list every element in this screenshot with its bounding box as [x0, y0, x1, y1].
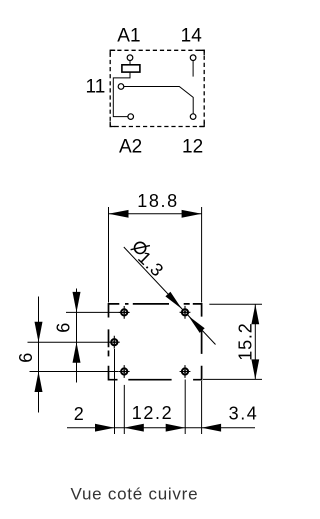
bottom dimension line: [67, 427, 255, 429]
svg-text:6: 6: [54, 322, 74, 333]
mounting hole bottom-right: [180, 365, 191, 378]
dimension 15.2 extension line bottom: [203, 378, 262, 380]
dimension 6 upper extension line (top hole row): [66, 311, 120, 313]
dimension 2 arrow (points right at mid-left column): [95, 424, 115, 432]
leader arrow upper (points at hole): [165, 292, 182, 309]
svg-text:11: 11: [86, 77, 106, 98]
relay footprint dashed outline: [109, 304, 202, 380]
dimension 15.2 extension line top: [209, 303, 262, 305]
mounting hole top-right: [180, 306, 191, 319]
dimension 6 lower arrow up: [35, 372, 43, 393]
wire 11 common contact arm to pin 12 (NC closed): [124, 87, 193, 114]
dimension 18.8 arrow right: [182, 210, 202, 218]
svg-text:18.8: 18.8: [137, 191, 178, 211]
relay K1 internal schematic dashed outline: [110, 50, 204, 126]
dimension 3.4 arrow (points left at right edge): [202, 424, 222, 432]
dimension 15.2 arrow down: [251, 359, 259, 379]
dimension 6 upper arrow down: [73, 292, 81, 313]
dimension 6 lower line: [38, 297, 40, 413]
leader arrow lower (points at hole): [188, 316, 205, 333]
svg-text:1.3: 1.3: [134, 247, 168, 280]
pin A1 terminal circle: [127, 55, 133, 61]
dimension 6 shared extension line (middle hole row): [28, 341, 109, 343]
diameter symbol slash: [131, 246, 150, 250]
mounting hole middle-left: [109, 336, 120, 349]
svg-text:3.4: 3.4: [229, 403, 259, 423]
dimension 6 lower arrow down: [35, 322, 43, 343]
dimension 6 upper line: [76, 289, 78, 383]
bottom dimensions extension line (right hole column): [184, 380, 186, 435]
bottom dimensions extension line (left hole column): [123, 385, 125, 434]
dimension 15.2 line: [254, 304, 256, 379]
relay coil: [122, 65, 140, 72]
dimension 18.8 extension line right: [201, 207, 203, 303]
svg-text:15.2: 15.2: [236, 322, 256, 360]
svg-text:2: 2: [74, 404, 86, 424]
bottom dimensions extension line (right edge): [201, 381, 203, 434]
svg-text:14: 14: [181, 25, 203, 46]
svg-text:12.2: 12.2: [132, 403, 173, 423]
wire A1 to coil: [129, 61, 131, 65]
dimension 6 upper arrow up: [73, 342, 81, 363]
dimension 18.8 arrow left: [109, 210, 129, 218]
svg-text:12: 12: [182, 136, 203, 157]
dimension 18.8 extension line left: [108, 207, 110, 303]
dimension 12.2 arrow left: [124, 424, 144, 432]
mounting hole top-left: [119, 306, 130, 319]
pin 14 terminal circle: [190, 55, 196, 61]
dimension 6 lower extension line (bottom hole row): [30, 371, 119, 373]
diameter symbol circle: [135, 242, 146, 253]
wire pin 14 stub (NO open): [192, 61, 194, 77]
wire coil to A2: [113, 73, 130, 117]
dimension 18.8 line: [109, 213, 202, 215]
pin 11 terminal circle (common): [118, 84, 124, 90]
svg-text:A1: A1: [117, 25, 140, 46]
svg-text:Vue coté cuivre: Vue coté cuivre: [71, 485, 199, 504]
dimension 12.2 arrow right: [166, 424, 186, 432]
pin A2 terminal circle: [128, 114, 134, 120]
mounting hole bottom-left: [119, 365, 130, 378]
svg-text:A2: A2: [119, 136, 142, 157]
dimension 15.2 arrow up: [251, 304, 259, 324]
bottom dimensions extension line (middle-left hole column): [114, 349, 116, 434]
pin 12 terminal circle: [190, 114, 196, 120]
svg-text:6: 6: [16, 352, 36, 363]
hole diameter leader line: [124, 247, 216, 345]
